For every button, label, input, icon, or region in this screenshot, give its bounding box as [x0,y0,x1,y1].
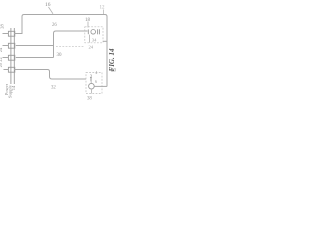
wire inside U2 [90,81,92,83]
unit U1 dashed enclosure [85,27,103,43]
svg-text:6: 6 [95,79,97,84]
switch S1 contact bar [87,29,89,34]
switch S2 contact bar [90,77,92,82]
capacitor bars U1 [97,29,99,34]
wire top bus L1 [22,15,107,87]
wire bus into U1 [103,40,107,42]
motor M1 circle [91,30,96,35]
svg-text:32: 32 [51,86,56,91]
terminal box 3 [8,55,14,60]
connector J1 rail right [13,28,15,84]
wire terminal1 to top bus [14,33,23,35]
wire terminal3 to riser foot [16,57,54,59]
leader for label 18 [87,22,89,28]
svg-text:12: 12 [100,6,106,11]
svg-text:Supply: Supply [8,84,13,98]
svg-text:22: 22 [0,57,3,61]
wire bus into U2 [94,85,107,87]
wire stub left 3 [3,57,9,59]
wire below M2 [90,89,92,93]
wire stub left 2 [3,45,9,47]
leader for label 16 [49,7,54,14]
wire stub left 4 [4,69,9,71]
svg-text:26: 26 [52,23,57,28]
connector J1 rail left [10,28,12,84]
svg-text:FIG. 14: FIG. 14 [108,48,116,71]
terminal box 1 [8,31,14,36]
wire terminal2 to riser [16,45,54,47]
svg-text:24: 24 [89,45,94,50]
leader for label 12 [103,10,105,15]
svg-text:16: 16 [45,2,51,8]
terminal box 4 [8,67,14,72]
svg-text:34: 34 [92,37,97,42]
wire inside U1 down [89,35,91,43]
svg-text:38: 38 [87,97,92,102]
unit U2 dashed enclosure [86,73,102,94]
wire terminal4 down-route [14,70,86,80]
dashed linkage line [56,45,84,47]
svg-text:30: 30 [57,53,63,58]
wire riser to unit1 [54,31,88,58]
wire stub left 1 [3,33,9,35]
motor M2 circle [89,83,95,89]
terminal box 2 [8,43,14,48]
